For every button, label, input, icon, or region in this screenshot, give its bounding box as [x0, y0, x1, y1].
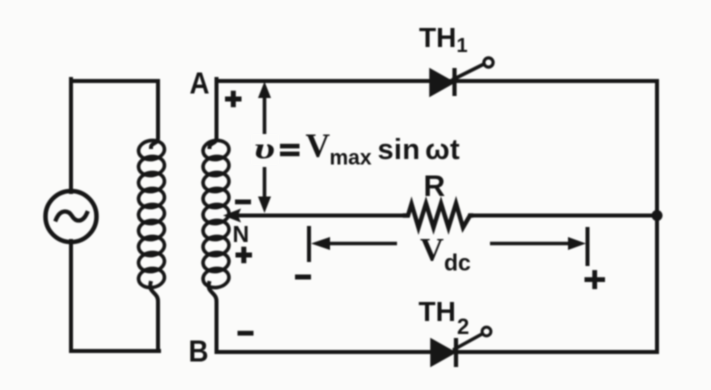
- ac source V1: [46, 191, 97, 242]
- svg-text:υ: υ: [254, 132, 275, 165]
- svg-text:V: V: [420, 233, 444, 269]
- wire bottom (B to right corner): [217, 350, 658, 354]
- polarity minus at node B: [238, 331, 254, 336]
- svg-text:1: 1: [457, 35, 468, 57]
- wire primary right upper: [151, 81, 158, 147]
- svg-text:max: max: [330, 147, 372, 170]
- wire primary bottom: [71, 349, 159, 353]
- v measurement arrow down: [258, 197, 271, 214]
- thyristor TH1: [430, 58, 493, 96]
- wire primary left lower: [69, 241, 73, 351]
- wire right vertical: [655, 81, 659, 352]
- transformer primary winding: [137, 139, 165, 289]
- wire middle left of R: [234, 214, 406, 218]
- polarity minus above tap: [235, 200, 251, 205]
- Vdc right arrow: [490, 242, 572, 246]
- svg-text:TH: TH: [419, 22, 456, 53]
- polarity minus below Vdc left bar: [295, 275, 311, 280]
- wire v arrow shaft lower: [263, 167, 267, 202]
- svg-text:R: R: [424, 170, 446, 203]
- wire secondary upper lead: [210, 79, 217, 147]
- polarity plus at node A: [225, 91, 242, 108]
- wire secondary lower lead: [209, 283, 217, 351]
- Vdc right bar: [586, 227, 590, 266]
- transformer secondary winding: [202, 139, 230, 289]
- v measurement arrow up: [258, 82, 271, 99]
- v = Vmax sin wt label: [251, 134, 279, 165]
- svg-text:N: N: [233, 221, 250, 247]
- svg-text:2: 2: [457, 314, 469, 339]
- wire top (A to right corner): [217, 79, 658, 83]
- svg-text:TH: TH: [419, 296, 456, 327]
- thyristor TH2: [431, 327, 491, 367]
- resistor R: [405, 204, 471, 228]
- Vdc left arrow: [311, 237, 330, 250]
- wire primary left upper: [69, 79, 73, 192]
- svg-text:A: A: [190, 66, 210, 101]
- wire middle right of R: [470, 214, 657, 218]
- polarity plus below Vdc right bar: [585, 270, 606, 289]
- wire primary top: [71, 79, 158, 83]
- svg-text:sin ωt: sin ωt: [378, 134, 460, 166]
- svg-text:B: B: [189, 334, 209, 369]
- wire v arrow shaft upper: [263, 94, 267, 136]
- svg-text:dc: dc: [444, 250, 471, 276]
- polarity plus below N: [236, 247, 253, 264]
- node N tap arrowhead: [223, 209, 241, 223]
- svg-text:V: V: [306, 128, 331, 165]
- Vdc left bar: [307, 226, 311, 262]
- wire primary right lower: [150, 283, 158, 351]
- node junction dot right: [652, 210, 663, 221]
